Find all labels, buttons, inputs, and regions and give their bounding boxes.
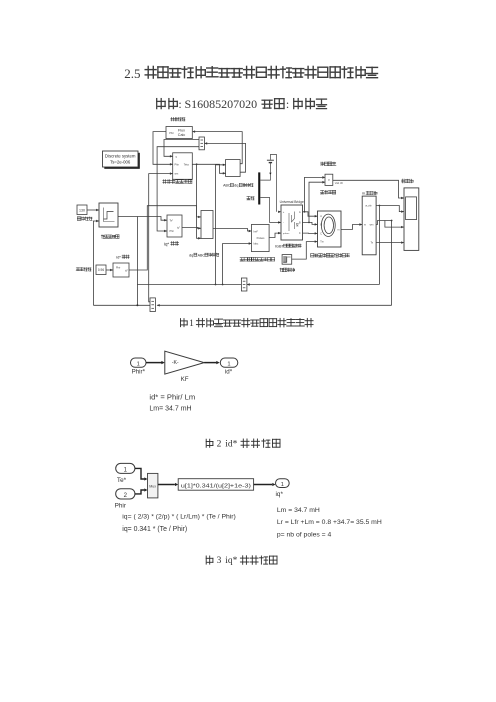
junction dots [136,304,138,306]
svg-text:3: 3 [217,556,222,566]
inport 2 (Phir) [116,489,135,499]
wire: bridge A to motor A [303,212,318,216]
gain KF triangle [165,351,204,374]
svg-text:Te*: Te* [117,477,127,484]
wire: DC- to bridge [260,197,281,222]
label: squirrel-cage induction motor [311,254,314,257]
svg-text:wm: wm [370,224,374,227]
svg-text:Teta: Teta [184,163,189,167]
inport 1 (Phir*) [131,358,147,367]
svg-text:ABC: ABC [198,253,206,257]
wire to gain [146,362,162,364]
block: iq* solver [167,215,182,237]
svg-text:id*: id* [225,439,237,449]
wire: motor m to measurement [341,225,362,230]
svg-text:m: m [362,192,365,196]
label: load torque [280,268,284,272]
wire: DC+ to bridge [278,211,281,213]
wire: iabc riser to hysteresis in2 [223,244,252,285]
wire: bottom wm feedback line (right of demux) [157,304,392,306]
wire inport1 to mux [135,468,145,479]
label: speed controller [101,235,105,239]
wire: wm riser from measurement [391,221,393,306]
svg-text:Lm= 34.7 mH: Lm= 34.7 mH [149,406,191,413]
svg-text:Mux: Mux [149,484,156,488]
wire: Vab to scope in1 [333,180,404,198]
svg-text:u[1]*0.341/(u[2]+1e-3): u[1]*0.341/(u[2]+1e-3) [181,483,251,489]
block: machine measurement demux [362,196,376,255]
svg-text:Discrete system: Discrete system [105,154,136,159]
svg-text:Phir: Phir [115,503,127,510]
svg-text:dq: dq [234,183,238,188]
svg-text:Flux: Flux [178,128,185,132]
battery symbol [270,155,276,212]
svg-text:IGBT: IGBT [275,245,285,249]
svg-text:2: 2 [217,439,222,449]
wire: wm feedback to speed controller [93,221,99,305]
svg-text:Phir: Phir [170,230,174,233]
svg-text:Pulses: Pulses [257,236,265,240]
wire: bottom iabc line to left [137,284,241,286]
wire: Te riser to bottom line [247,284,380,286]
block: voltage measurement [325,174,333,185]
svg-text::: : [286,97,289,111]
svg-text:Te*: Te* [170,219,174,222]
wire: Vab taps [305,177,326,211]
svg-text:iq*: iq* [177,226,180,229]
svg-text:iq*: iq* [276,491,284,498]
svg-text:Calc: Calc [178,133,186,137]
svg-text:Iref*: Iref* [254,230,259,233]
block: speed controller [99,203,118,227]
demux (bottom wm line, flipped) [150,298,155,312]
block: id* solver [113,263,129,277]
block: abc-to-dq transform [226,160,241,177]
svg-text:S16085207020: S16085207020 [185,97,258,111]
constant 130 (speed reference) [77,205,87,215]
svg-text:id*: id* [116,254,121,259]
svg-text:Ts=2e-006: Ts=2e-006 [110,159,131,164]
svg-text:Lm = 34.7 mH: Lm = 34.7 mH [277,507,320,514]
wire: bridge B to motor B [303,222,318,224]
label: rotor flux angle [163,180,167,184]
svg-text::: : [178,97,181,111]
wire: 130 to speed controller [87,209,99,211]
label: power source [247,197,251,200]
svg-text:iq= 0.341 * (Te / Phir): iq= 0.341 * (Te / Phir) [122,526,187,533]
block: Universal Bridge (IGBT inverter) [281,205,303,240]
svg-text:0.96: 0.96 [98,268,104,272]
svg-text:KF: KF [181,376,189,383]
wire: Phir to iq* solver [157,147,199,231]
block: load torque step [282,255,292,265]
svg-text:p= nb of poles = 4: p= nb of poles = 4 [277,532,332,539]
svg-text:130: 130 [79,209,85,213]
wire: pulses to bridge [269,233,281,237]
block: Discrete system annotation [104,153,140,169]
svg-text:w_ele: w_ele [365,205,372,208]
caption figure 1 [181,319,188,327]
wire mux to fcn [158,484,175,486]
wire: 0.96 to id* solver [106,269,113,271]
wire: wm feedback riser to Teta calc [149,174,173,302]
caption figure 3 [206,556,213,564]
svg-text:m: m [364,224,366,227]
svg-text:1: 1 [281,482,284,488]
block: induction motor [318,211,342,247]
svg-text:C: C [320,233,322,236]
demux (top, flipped) [199,137,204,150]
svg-text:1: 1 [137,361,140,367]
wire: w_elec riser to bottom [378,206,380,285]
svg-text:pulses: pulses [283,233,290,235]
label: scope [401,179,405,183]
svg-text:Phir*: Phir* [132,368,146,375]
block: dq0-to-abc transform [201,211,213,239]
label: flux reference [76,268,80,271]
wire inport2 to mux [135,490,145,494]
DC source bus bar [258,172,260,204]
wire: iq* out to dq-abc input2 [182,226,201,229]
svg-text:-K-: -K- [172,360,179,366]
wire: Teta to abc-dq in2 [197,164,226,173]
svg-text:Tm: Tm [320,241,323,244]
svg-text:m: m [338,228,340,231]
wire fcn to outport [254,484,273,486]
block: scope [404,188,419,251]
svg-text:iq= ( 2/3) * (2/p) * ( Lr/Lm): iq= ( 2/3) * (2/p) * ( Lr/Lm) * (Te / Ph… [122,514,236,521]
svg-text:Phir: Phir [116,267,120,270]
wire to outport [204,362,216,364]
wire: load torque to motor Tm [292,242,318,260]
label: voltage measurement [320,191,324,194]
svg-text:ABC: ABC [223,184,231,188]
fcn block u[1]*0.341/(u[2]+1e-3) [178,479,253,491]
svg-text:dq: dq [189,252,193,257]
outport 1 (iq*) [276,479,290,488]
caption figure 2 [206,439,213,447]
student id line [157,99,165,109]
svg-text:Vab 30: Vab 30 [335,181,344,185]
demux (bottom, flipped) [241,278,247,291]
wire: demux out to Teta in1 [164,140,199,157]
svg-text:1: 1 [227,361,230,367]
wire: iabc riser to abc-dq in1 [216,165,226,285]
label: divider time [321,162,324,166]
mux block [148,473,158,498]
wire: Te* drop junction [136,217,138,306]
svg-text:-: - [283,222,284,225]
svg-text:id*: id* [225,368,233,375]
block: Flux Calc [166,127,192,139]
svg-text:Universal Bridge: Universal Bridge [280,200,304,204]
svg-text:wm: wm [175,173,179,176]
wire: w_elec to scope in2 [376,206,404,212]
wire: wm to scope in3 [376,221,392,225]
wire: abc-dq out1 to Flux Calc [194,132,242,164]
wire: Flux Calc out to Teta in2 [153,132,173,165]
svg-text:Lr = Lfr +Lm = 0.8 +34.7= 35.5: Lr = Lfr +Lm = 0.8 +34.7= 35.5 mH [277,519,382,526]
wire: bottom wm feedback line (left of demux) [93,304,150,306]
outport 1 (id*) [220,358,238,367]
block: hysteresis current pulse generator [252,224,270,251]
svg-text:id*: id* [125,270,128,273]
svg-text:Phir: Phir [175,164,179,167]
block: Teta Calc (rotor flux angle) [173,153,193,180]
wire: id* out to dq-abc input1 [129,206,201,270]
wire: abc-dq out2 to demux [206,143,246,172]
label: hysteresis pulse generator [240,258,244,261]
svg-text:iq*: iq* [225,556,237,566]
svg-text:iq*: iq* [164,242,169,247]
svg-text:2.5: 2.5 [124,66,140,81]
inport 1 (Te*) [116,463,135,473]
svg-text:Iabc: Iabc [254,243,259,246]
constant 0.96 (flux reference) [96,265,106,275]
svg-text:1: 1 [189,319,194,329]
svg-text:C: C [299,232,301,235]
label: qiujie-citong (Flux calc label) [171,117,175,121]
label: speed reference [77,217,80,221]
svg-text:id* = Phir/ Lm: id* = Phir/ Lm [149,392,195,401]
wire: speed controller out to iq* solver [118,217,167,221]
wire: Te to scope in4 [376,242,404,244]
wire: Teta out to dq-abc in3 [192,164,201,238]
svg-text:Phir: Phir [169,132,174,135]
wire: dq-abc out to hysteresis in1 [213,229,252,232]
wire: bridge C to motor C [303,232,318,234]
